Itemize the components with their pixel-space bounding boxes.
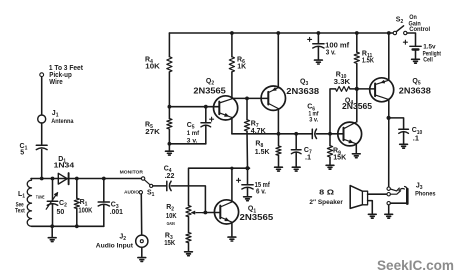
svg-text:10K: 10K: [166, 211, 177, 220]
svg-text:2N3565: 2N3565: [193, 85, 226, 95]
wire C1 to tank: [41, 150, 43, 179]
resistor R6 1K: [229, 33, 247, 72]
node R6 rail junction: [230, 31, 234, 35]
node C2 bottom junction: [50, 224, 54, 228]
ground R3: [185, 243, 193, 256]
resistor R1 100K: [74, 179, 93, 227]
node 100mf rail junction: [317, 31, 321, 35]
resistor R4 10K: [145, 33, 172, 72]
svg-text:5: 5: [20, 150, 24, 157]
resistor R8 1.5K: [255, 134, 281, 167]
svg-text:Phones: Phones: [415, 190, 436, 197]
ground 15mf: [244, 197, 252, 201]
svg-text:Audio Input: Audio Input: [96, 243, 134, 250]
resistor R2 10K GAIN pot: [166, 204, 203, 226]
node antenna-tank junction: [40, 177, 44, 181]
transistor Q3 2N3638 PNP: [261, 79, 319, 111]
capacitor C5 1mf 3v: [187, 107, 214, 145]
svg-text:3 v.: 3 v.: [326, 50, 336, 57]
wire J3 sleeve to ground: [388, 205, 390, 214]
ground C7: [292, 167, 300, 171]
svg-text:15K: 15K: [164, 238, 176, 247]
capacitor C6 1mf 3v: [307, 104, 319, 139]
wire R6 to Q2 collector: [231, 72, 233, 99]
svg-text:.1: .1: [305, 152, 311, 161]
capacitor C2 50pF variable TUNE: [36, 179, 67, 227]
wire Q1 collector: [230, 167, 233, 202]
ground tank: [48, 226, 56, 241]
node C10 junction: [387, 116, 391, 120]
node Q4 collector junction: [355, 87, 359, 91]
wire S2 to battery: [407, 33, 416, 46]
svg-text:Antenna: Antenna: [51, 118, 74, 125]
resistor R10 3.3K feedback: [330, 71, 357, 133]
svg-text:L1: L1: [18, 191, 25, 200]
switch S1 monitor contact: [120, 169, 145, 180]
svg-text:2N3638: 2N3638: [399, 85, 431, 95]
svg-text:1K: 1K: [237, 62, 247, 71]
resistor R5 27K: [145, 119, 172, 136]
svg-text:1.5K: 1.5K: [362, 56, 375, 65]
svg-text:8 Ω: 8 Ω: [319, 190, 334, 197]
svg-text:.001: .001: [110, 207, 123, 216]
node R7 bottom junction: [245, 166, 249, 170]
svg-text:C2: C2: [59, 200, 67, 209]
ground R5: [166, 151, 174, 155]
capacitor 100mf 3v: [308, 33, 350, 60]
resistor R9 15K: [327, 134, 347, 165]
node R1 top junction: [75, 177, 79, 181]
svg-text:See: See: [16, 202, 24, 208]
svg-text:MONITOR: MONITOR: [120, 169, 144, 174]
resistor R3 15K: [164, 232, 191, 247]
svg-text:Wire: Wire: [49, 79, 63, 86]
svg-text:1N34: 1N34: [54, 160, 76, 169]
resistor R11 1.5K: [354, 33, 374, 89]
wire R4 to R5: [168, 72, 170, 119]
svg-text:1.5K: 1.5K: [255, 147, 270, 156]
wire Q2 base: [169, 106, 219, 108]
capacitor C10 .1: [389, 118, 423, 144]
transistor Q5 2N3638 PNP: [370, 78, 431, 102]
node R7 top junction: [245, 97, 249, 101]
node pick-up wire end: [40, 73, 44, 77]
wire Q5 emitter to rail: [387, 31, 391, 80]
wire Q3 collector: [277, 109, 279, 134]
battery B1 1.5v Penlight Cell: [403, 40, 441, 64]
svg-text:SeekIC.com: SeekIC.com: [377, 258, 454, 274]
svg-text:27K: 27K: [145, 127, 160, 136]
wire audio contact to J2: [140, 194, 142, 235]
transistor Q4 2N3565: [338, 97, 372, 146]
svg-text:15K: 15K: [333, 153, 347, 162]
svg-text:S1: S1: [147, 190, 155, 199]
jack J1 Antenna: [38, 110, 74, 125]
ground battery: [412, 59, 420, 63]
wire J1 to C1: [41, 123, 43, 145]
wire Q4 collector: [356, 89, 358, 122]
svg-text:TUNE: TUNE: [36, 194, 45, 199]
node C2 top junction: [51, 177, 55, 181]
svg-text:3 v.: 3 v.: [187, 138, 198, 145]
svg-text:3 v.: 3 v.: [309, 116, 318, 123]
jack J2 Audio Input: [96, 233, 148, 249]
svg-text:Cell: Cell: [423, 57, 433, 64]
watermark SeekIC.com: [377, 258, 454, 274]
wire Q2 emitter: [231, 118, 233, 134]
capacitor C3 .001: [98, 177, 123, 227]
capacitor C4 .22: [164, 165, 175, 190]
svg-text:2N3638: 2N3638: [286, 86, 319, 96]
ground R9: [326, 165, 334, 169]
node R9 R10 junction: [328, 132, 332, 136]
svg-text:2N3565: 2N3565: [240, 212, 274, 222]
svg-text:2″ Speaker: 2″ Speaker: [309, 199, 343, 206]
wire Q2 collector to Q3 base: [232, 97, 268, 99]
capacitor 15mf 6v: [237, 168, 271, 196]
svg-text:50: 50: [57, 209, 65, 216]
ground Q1 emitter: [228, 237, 236, 241]
svg-text:.22: .22: [165, 171, 175, 180]
wire tank top rail: [31, 178, 142, 180]
svg-text:3.3K: 3.3K: [334, 77, 351, 86]
svg-text:100 mf: 100 mf: [325, 43, 350, 50]
svg-text:AUDIO: AUDIO: [124, 190, 139, 195]
wire to Q5 base: [357, 88, 375, 90]
speaker 8 ohm 2 inch: [309, 186, 367, 209]
svg-text:100K: 100K: [78, 205, 93, 214]
node C5 top junction: [204, 105, 208, 109]
svg-text:Pick-up: Pick-up: [49, 72, 72, 79]
svg-text:1 mf: 1 mf: [187, 130, 200, 137]
ground J2: [138, 247, 146, 261]
svg-text:GAIN: GAIN: [167, 221, 175, 226]
wire V+ rail: [169, 32, 393, 34]
switch S2 On Gain Control: [393, 14, 430, 35]
svg-text:6 v.: 6 v.: [256, 188, 266, 195]
svg-text:Text: Text: [15, 209, 25, 215]
wire Q1 collector node: [189, 168, 250, 205]
wire R2 to R3: [188, 217, 190, 233]
wire Q4 emitter: [355, 144, 357, 153]
wire tank bottom rail: [32, 225, 104, 227]
wire S1 to C4: [153, 185, 167, 187]
ground Q4 emitter: [352, 154, 360, 158]
ground C10: [400, 144, 408, 148]
svg-text:Control: Control: [409, 26, 430, 33]
wire Q3 emitter to rail: [276, 31, 280, 88]
node R8 junction: [277, 132, 281, 136]
switch S1 audio contact: [124, 190, 142, 195]
node R11 rail junction: [355, 31, 359, 35]
transistor Q2 2N3565: [193, 78, 237, 120]
inductor L1: [15, 179, 32, 227]
wire antenna lead: [42, 65, 84, 115]
wire speaker top terminal: [368, 193, 387, 195]
svg-text:10K: 10K: [145, 62, 160, 71]
ground J3: [385, 214, 393, 218]
wire R2 wiper to Q1 base: [203, 212, 220, 214]
node C7 junction: [294, 132, 298, 136]
node Q1 base junction: [204, 211, 208, 215]
svg-text:S2: S2: [396, 17, 404, 26]
capacitor C7 .1: [291, 134, 312, 167]
wire R5 to ground: [168, 129, 206, 151]
diode D1 1N34: [54, 156, 76, 184]
wire Q5 collector down: [388, 100, 390, 187]
resistor R7 4.7K: [244, 98, 266, 168]
jack J3 Phones: [387, 183, 436, 205]
svg-text:.1: .1: [413, 133, 419, 142]
node R1 bottom junction: [75, 224, 79, 228]
capacitor C1 5pF: [20, 143, 48, 157]
ground R8: [275, 167, 283, 171]
wire Q1 emitter: [231, 222, 233, 236]
node Q2 base junction: [168, 105, 172, 109]
wire Q2 emitter to C6: [232, 133, 312, 135]
wire speaker bottom terminal: [368, 201, 373, 214]
switch S1 pivot and lever: [144, 180, 154, 198]
svg-text:J2: J2: [119, 233, 126, 242]
ground 100mf: [315, 60, 323, 64]
wire C4 to Q1 base: [171, 186, 205, 213]
transistor Q1 2N3565: [214, 200, 273, 224]
wire C6 to Q4 base: [317, 133, 344, 135]
ground speaker: [368, 214, 376, 218]
